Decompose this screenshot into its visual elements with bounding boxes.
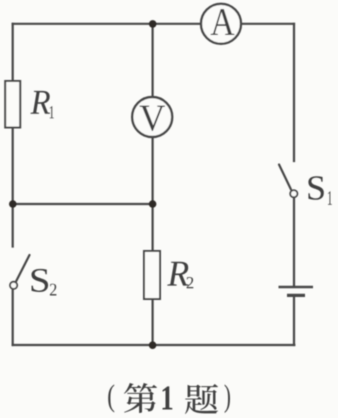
caption open paren [108, 384, 114, 412]
label S2 subscript 2 [50, 284, 57, 296]
resistor R2 [144, 251, 160, 299]
label R2 subscript 2 [187, 277, 194, 288]
wire bottom [13, 344, 295, 346]
switch S1 blade [279, 165, 291, 190]
wire right upper [293, 24, 295, 161]
ammeter circle [201, 4, 241, 44]
switch S2 pivot circle [10, 282, 17, 289]
switch S1 pivot circle [290, 190, 297, 197]
junction node bottom [149, 341, 157, 349]
label R1 letter R [30, 91, 50, 114]
switch S2 blade [16, 255, 30, 282]
wire right lower from battery to bottom [293, 296, 295, 345]
junction node mid-left [9, 200, 17, 208]
battery long plate [279, 286, 314, 288]
ammeter label A [211, 9, 235, 35]
wire middle branch vertical [152, 24, 154, 345]
voltmeter label V [140, 106, 165, 131]
caption close paren [225, 384, 230, 413]
caption numeral 1 [163, 386, 173, 409]
wire middle horizontal [13, 203, 153, 205]
label S2 letter S [31, 269, 48, 292]
caption character Ti (题) [185, 384, 218, 414]
wire left [12, 24, 14, 247]
resistor R1 [5, 81, 20, 128]
wire top [13, 23, 294, 25]
caption character Di (第) [124, 383, 157, 413]
label S1 letter S [308, 176, 323, 200]
wire right middle from S1 to battery [293, 198, 295, 287]
junction node mid-right [149, 200, 157, 208]
battery short plate [287, 294, 305, 297]
label R1 subscript 1 [50, 106, 54, 118]
label S1 subscript 1 [328, 191, 332, 204]
junction node top [149, 20, 157, 28]
wire left lower below switch S2 [12, 290, 14, 346]
label R2 letter R [167, 262, 188, 286]
voltmeter circle [132, 97, 172, 137]
